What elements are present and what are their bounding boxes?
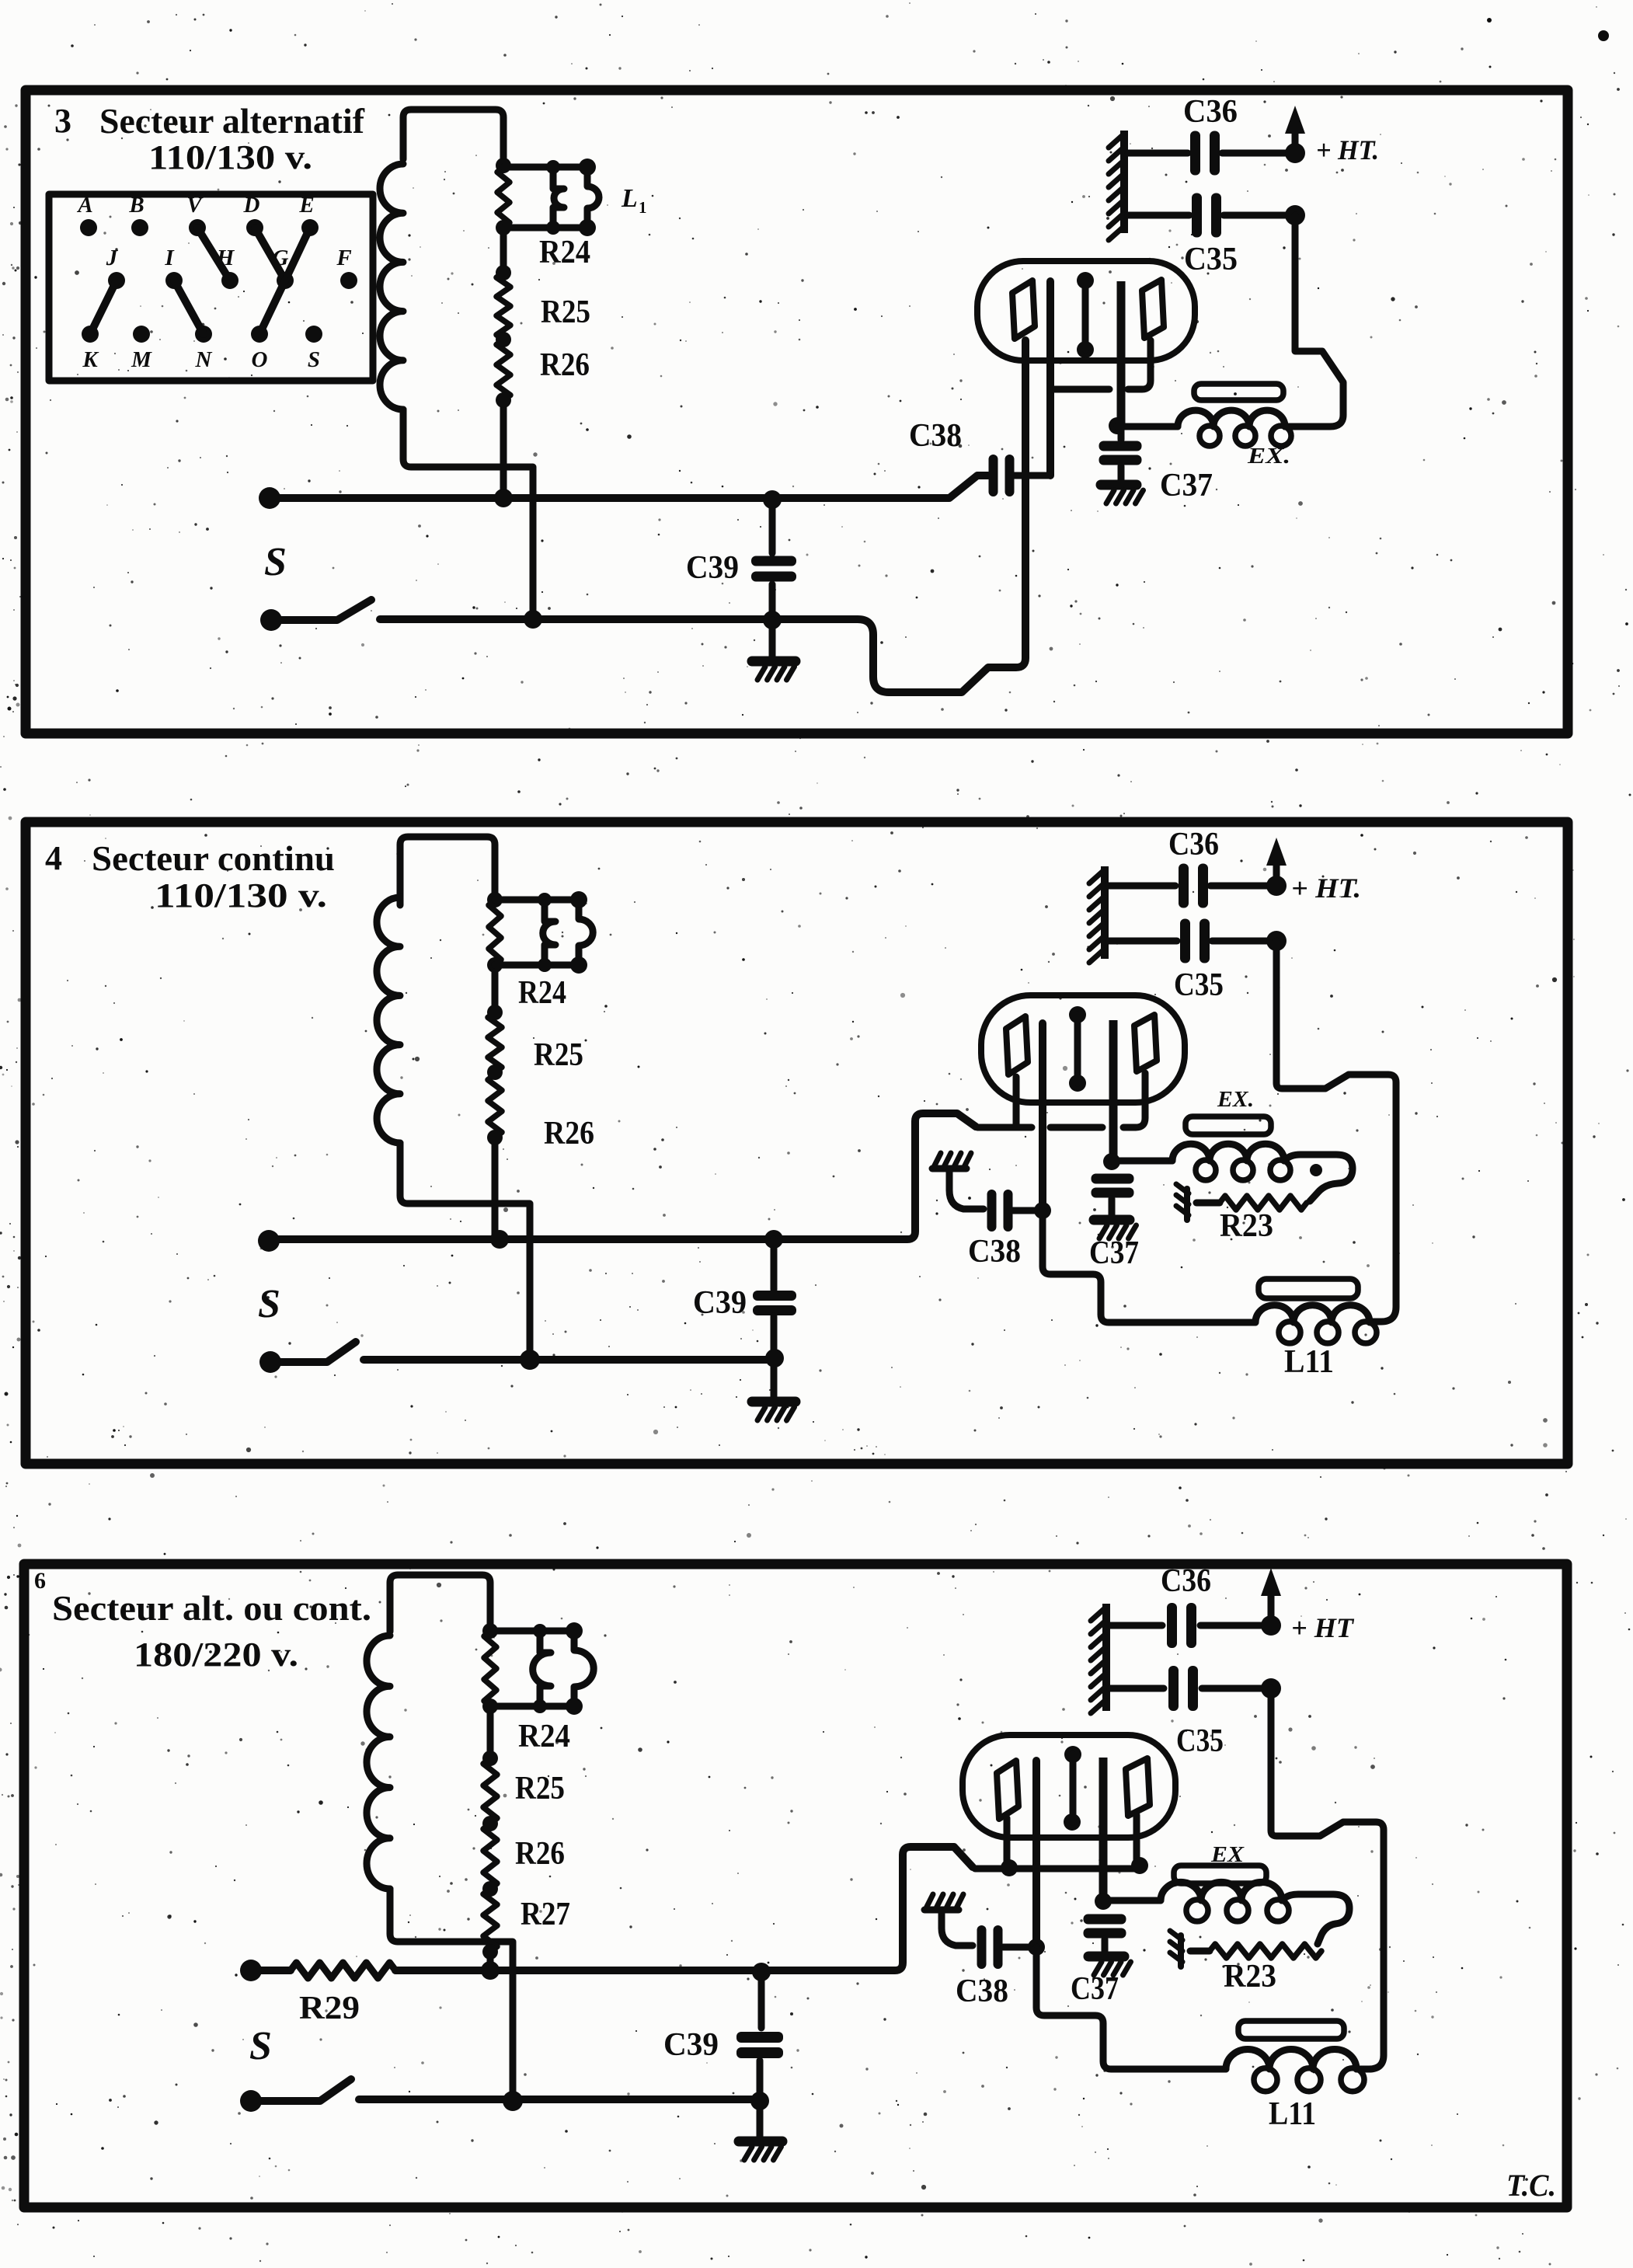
svg-text:110/130 v.: 110/130 v.	[155, 876, 327, 915]
svg-text:B: B	[128, 193, 144, 218]
svg-text:C38: C38	[909, 418, 962, 454]
svg-text:O: O	[252, 347, 268, 372]
svg-text:S: S	[258, 1282, 280, 1326]
svg-text:M: M	[131, 347, 152, 372]
svg-text:D: D	[243, 193, 260, 218]
svg-text:6: 6	[34, 1568, 46, 1594]
svg-text:R23: R23	[1220, 1208, 1273, 1244]
svg-text:S: S	[249, 2024, 272, 2068]
svg-text:C35: C35	[1174, 967, 1224, 1003]
svg-text:R26: R26	[544, 1116, 594, 1151]
svg-text:L11: L11	[1284, 1344, 1334, 1380]
svg-text:R24: R24	[539, 235, 590, 270]
svg-text:L: L	[621, 184, 638, 213]
svg-text:R26: R26	[515, 1836, 565, 1872]
svg-text:L11: L11	[1269, 2096, 1316, 2132]
svg-text:C37: C37	[1089, 1235, 1139, 1271]
svg-text:3: 3	[54, 102, 71, 140]
svg-text:Secteur alt. ou cont.: Secteur alt. ou cont.	[52, 1588, 371, 1628]
svg-text:R29: R29	[299, 1991, 360, 2026]
svg-text:C38: C38	[956, 1974, 1008, 2009]
svg-text:T.C.: T.C.	[1506, 2168, 1556, 2203]
svg-text:C37: C37	[1160, 468, 1213, 503]
svg-text:EX: EX	[1210, 1843, 1245, 1867]
svg-text:V: V	[186, 193, 204, 218]
svg-text:I: I	[164, 246, 175, 270]
svg-text:C36: C36	[1183, 94, 1238, 130]
svg-text:R25: R25	[541, 294, 590, 330]
svg-text:R26: R26	[540, 347, 590, 383]
svg-text:C39: C39	[686, 550, 739, 586]
svg-text:N: N	[195, 347, 213, 372]
svg-text:R25: R25	[515, 1771, 565, 1806]
svg-text:1: 1	[639, 198, 647, 217]
svg-text:A: A	[76, 193, 92, 218]
svg-text:C35: C35	[1184, 242, 1238, 277]
svg-text:K: K	[82, 347, 99, 372]
svg-text:R24: R24	[518, 1719, 570, 1754]
svg-text:R25: R25	[534, 1037, 583, 1073]
svg-text:C39: C39	[693, 1285, 747, 1321]
svg-text:+ HT.: + HT.	[1316, 134, 1379, 165]
svg-text:C38: C38	[968, 1234, 1021, 1270]
svg-text:C36: C36	[1161, 1563, 1211, 1599]
svg-text:110/130 v.: 110/130 v.	[148, 138, 312, 176]
svg-text:R24: R24	[518, 975, 566, 1011]
svg-text:F: F	[336, 246, 351, 270]
svg-text:J: J	[106, 246, 119, 270]
svg-text:R23: R23	[1224, 1959, 1276, 1995]
svg-text:EX.: EX.	[1247, 444, 1290, 469]
svg-text:S: S	[264, 540, 287, 584]
svg-text:R27: R27	[521, 1897, 570, 1932]
svg-text:EX.: EX.	[1217, 1088, 1254, 1112]
svg-text:Secteur continu: Secteur continu	[92, 838, 335, 878]
svg-text:S: S	[308, 347, 320, 372]
svg-text:C39: C39	[663, 2027, 719, 2063]
svg-text:4: 4	[45, 839, 62, 877]
svg-text:C37: C37	[1071, 1971, 1119, 2007]
svg-text:+ HT: + HT	[1291, 1612, 1355, 1643]
svg-text:E: E	[298, 193, 314, 218]
svg-text:Secteur alternatif: Secteur alternatif	[99, 101, 365, 141]
svg-text:C35: C35	[1176, 1723, 1224, 1759]
svg-text:+ HT.: + HT.	[1291, 873, 1361, 904]
svg-text:C36: C36	[1168, 827, 1219, 862]
svg-text:180/220 v.: 180/220 v.	[134, 1636, 298, 1674]
